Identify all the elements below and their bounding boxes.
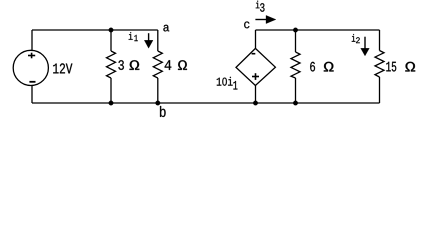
junction dot node b bbox=[156, 101, 161, 106]
wire 4-ohm branch bottom bbox=[157, 78, 159, 103]
current arrow i2 bbox=[361, 37, 370, 56]
text node label b bbox=[160, 106, 166, 117]
text value 4 of R 4-ohm bbox=[165, 60, 172, 70]
minus sign inside V1 bbox=[29, 81, 35, 83]
resistor R 15-ohm zigzag bbox=[375, 51, 384, 78]
wire 3-ohm branch top bbox=[110, 30, 112, 51]
text node label c bbox=[244, 22, 249, 29]
resistor R 6-ohm zigzag bbox=[291, 52, 300, 78]
text value 12V bbox=[53, 63, 72, 73]
wire 4-ohm branch top bbox=[157, 30, 159, 51]
resistor R 4-ohm zigzag bbox=[153, 51, 162, 78]
text node label a bbox=[163, 25, 169, 32]
wire above dependent source bbox=[255, 30, 257, 48]
junction dot bottom 3-ohm bbox=[109, 101, 114, 106]
text current label i of i3 bbox=[256, 1, 260, 9]
plus sign inside V1 bbox=[28, 53, 35, 59]
text subscript 2 of i2 bbox=[356, 37, 360, 43]
current arrow i3 bbox=[255, 15, 276, 23]
wire top left loop bbox=[32, 29, 158, 31]
text current label i of i1 bbox=[129, 32, 133, 40]
wire 15-ohm branch bottom bbox=[379, 77, 381, 103]
dependent source diamond bbox=[236, 48, 275, 85]
junction dot top 6-ohm bbox=[293, 28, 298, 33]
text current label i of i2 bbox=[352, 34, 356, 42]
resistor R 3-ohm zigzag bbox=[107, 51, 116, 78]
junction dot top 3-ohm bbox=[109, 28, 114, 33]
wire 6-ohm branch top bbox=[295, 30, 297, 52]
wire left vertical above source bbox=[31, 30, 33, 50]
junction dot bottom 6-ohm bbox=[293, 101, 298, 106]
wire below dependent source bbox=[255, 86, 257, 104]
text subscript 1 of 10i1 bbox=[233, 81, 237, 90]
wire 3-ohm branch bottom bbox=[110, 78, 112, 103]
text value 3 of R 3-ohm bbox=[118, 60, 124, 70]
text value 6 of R 6-ohm bbox=[310, 62, 315, 72]
wire below source bbox=[31, 86, 33, 103]
wire bottom rail bbox=[32, 102, 380, 104]
text subscript 1 of i1 bbox=[134, 35, 137, 41]
text ohm sign of R 4-ohm bbox=[178, 60, 187, 70]
text ohm sign of R 6-ohm bbox=[324, 62, 334, 72]
text ohm sign of R 3-ohm bbox=[130, 60, 140, 70]
current arrow i1 bbox=[144, 33, 153, 48]
wire 15-ohm branch top bbox=[379, 30, 381, 51]
minus sign inside dependent source bbox=[252, 53, 256, 55]
text gain 10i of dependent source bbox=[217, 77, 233, 86]
wire top right circuit bbox=[256, 29, 380, 31]
text ohm sign of R 15-ohm bbox=[405, 62, 415, 72]
text subscript 3 of i3 bbox=[260, 3, 264, 12]
plus sign inside dependent source bbox=[252, 73, 259, 80]
text value 15 of R 15-ohm bbox=[386, 62, 396, 72]
wire 6-ohm branch bottom bbox=[295, 78, 297, 103]
junction dot bottom dependent source bbox=[253, 101, 258, 106]
voltage source V1 circle bbox=[13, 50, 48, 85]
